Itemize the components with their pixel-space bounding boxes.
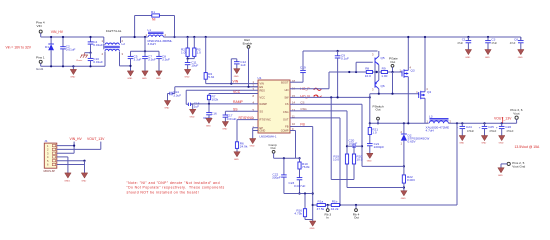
capacitor C14 3.3uF: [164, 87, 181, 110]
wire HO_N SW line: [290, 96, 371, 98]
wire CSG line: [290, 111, 404, 188]
ground GND input: [70, 65, 76, 78]
capacitor C15 1uF: [186, 90, 200, 118]
svg-text:GND: GND: [156, 78, 161, 80]
svg-text:Vout Gnd: Vout Gnd: [512, 165, 525, 169]
resistor R1b 42.2k: [331, 200, 340, 211]
wire FB column: [290, 127, 314, 222]
svg-text:GND: GND: [234, 159, 239, 161]
wire comp bottom: [284, 193, 313, 195]
svg-text:RAMP: RAMP: [233, 100, 244, 104]
svg-text:C25: C25: [488, 125, 494, 129]
wire EN/C14 line: [175, 86, 258, 88]
svg-text:FB: FB: [285, 125, 289, 129]
svg-text:"Do Not Populate" respectively: "Do Not Populate" respectively. These co…: [127, 186, 225, 190]
svg-text:0.01uF: 0.01uF: [93, 43, 103, 47]
svg-text:Gnd1: Gnd1: [36, 67, 44, 71]
svg-text:RT/SYNC: RT/SYNC: [260, 118, 271, 122]
terminal Pins 4 VIN: [36, 21, 45, 37]
wire boot rail top: [303, 50, 378, 52]
svg-text:GND: GND: [367, 161, 372, 163]
IC pin numbers: [253, 79, 296, 131]
svg-text:GND: GND: [70, 77, 75, 79]
svg-text:R9: R9: [382, 67, 386, 71]
test point Comp Out: [269, 143, 278, 158]
pin numbers Q3 Q4: [400, 66, 429, 95]
svg-text:0.01uF: 0.01uF: [66, 48, 76, 52]
svg-text:47uF: 47uF: [491, 42, 497, 45]
capacitor C21 2200pF snubber: [367, 142, 385, 163]
svg-text:SS: SS: [233, 108, 238, 112]
wire RT/SYNC line: [237, 119, 258, 121]
svg-text:13.5Vout @ 15A: 13.5Vout @ 15A: [515, 145, 540, 149]
test point PSwitch Out: [373, 104, 384, 124]
svg-text:470uF: 470uF: [467, 130, 475, 133]
svg-text:GND: GND: [222, 129, 227, 131]
resistor R19 10.0: [333, 154, 349, 164]
transistor Q6 PNP: [375, 72, 385, 94]
net label VOUT_13V: [494, 117, 512, 123]
svg-text:GND: GND: [250, 146, 255, 148]
ground EP GND of IC: [250, 128, 259, 148]
wire J1 pin 5: [57, 160, 86, 162]
wire RES line: [186, 89, 258, 91]
svg-text:VIN_HV: VIN_HV: [70, 137, 83, 141]
svg-text:330pF: 330pF: [272, 176, 281, 180]
svg-text:EN: EN: [260, 85, 264, 89]
capacitor C12 1uF on VIN: [231, 59, 246, 84]
capacitor C1 47uF: [457, 36, 471, 59]
svg-text:0.003: 0.003: [407, 178, 415, 182]
svg-text:1.0: 1.0: [197, 51, 202, 55]
svg-text:VIN: VIN: [37, 24, 42, 28]
svg-text:VOUT_13V: VOUT_13V: [87, 137, 105, 141]
svg-text:OUT: OUT: [283, 118, 289, 122]
svg-text:102k: 102k: [212, 97, 219, 101]
svg-text:0.047uF: 0.047uF: [294, 184, 305, 188]
svg-text:0.1uF: 0.1uF: [341, 57, 349, 61]
svg-text:Vin = 16V to 32V: Vin = 16V to 32V: [6, 46, 32, 50]
svg-text:GND: GND: [234, 76, 239, 78]
ground GND1 J1: [64, 173, 71, 183]
svg-text:NI: NI: [152, 18, 155, 22]
svg-text:Chass: Chass: [76, 60, 83, 62]
ground FB divider: [310, 221, 316, 230]
svg-text:GND: GND: [459, 143, 464, 145]
op-amp U1 controller: [258, 76, 291, 139]
resistor R2 1.0: [181, 36, 189, 59]
capacitor C19 boot: [290, 51, 306, 82]
svg-text:R8: R8: [365, 67, 369, 71]
svg-text:SW: SW: [284, 95, 289, 99]
svg-text:GND: GND: [142, 78, 147, 80]
svg-text:Q4: Q4: [427, 90, 431, 94]
transistor Q5 NPN: [375, 51, 385, 72]
svg-text:Out: Out: [376, 108, 381, 112]
resistor R1 NI bridge: [134, 10, 176, 38]
resistor R6 24.9k: [234, 120, 248, 161]
capacitor C9 0.1uF: [335, 50, 349, 98]
svg-text:C16: C16: [211, 112, 217, 116]
resistor R10 76.8k: [296, 157, 311, 178]
common-mode choke L2 FA2774-AL: [104, 29, 131, 67]
wire top input rail: [41, 36, 104, 38]
capacitor C25 470uF: [479, 123, 497, 144]
svg-text:GND: GND: [518, 57, 523, 59]
svg-text:1uF: 1uF: [194, 105, 199, 109]
svg-text:D1: D1: [45, 45, 49, 49]
svg-text:"Note: "NI" and "DNP" denote ": "Note: "NI" and "DNP" denote "Not Instal…: [127, 181, 220, 185]
diode D1 TVS: [45, 36, 54, 68]
svg-text:5.32: 5.32: [208, 75, 214, 79]
svg-text:VCC: VCC: [233, 90, 241, 94]
svg-text:L3: L3: [429, 115, 433, 119]
pin numbers D2: [401, 130, 403, 146]
test point Rb 4 Out: [353, 205, 360, 219]
wire switch node: [369, 122, 429, 124]
resistor R21 1.0 snubber: [368, 123, 378, 143]
capacitor C23 0.047uF: [289, 178, 306, 195]
svg-text:R1b: R1b: [332, 200, 338, 204]
svg-text:0.65V: 0.65V: [408, 140, 417, 144]
wire Q4 gate line: [370, 72, 419, 123]
wire driver base bus: [375, 64, 378, 82]
svg-text:2200pF: 2200pF: [374, 145, 385, 149]
capacitor C10 0.01uF lower Y-cap: [88, 53, 103, 68]
pin numbers J1: [47, 144, 49, 167]
pin numbers L3: [427, 120, 452, 124]
net label HO_N with DNP mark: [300, 94, 321, 98]
wire top rail choke to L1: [121, 36, 148, 38]
svg-text:C24: C24: [466, 125, 472, 129]
svg-text:4.75k: 4.75k: [294, 211, 302, 215]
capacitor C6 47uF: [510, 37, 524, 59]
capacitor C4 0.01uF upper Y-cap: [88, 36, 103, 53]
wire CS line: [290, 104, 404, 166]
svg-text:3.3uF: 3.3uF: [173, 93, 181, 97]
test point Rb 3 In: [325, 205, 332, 219]
wire VIN pin line: [206, 83, 258, 85]
inductor L3 output: [426, 115, 450, 133]
wire aux sense line: [331, 97, 354, 179]
svg-text:1.00: 1.00: [381, 74, 387, 78]
wire OUT sense column: [290, 118, 341, 206]
pin numbers L1: [146, 33, 167, 37]
pin numbers choke: [102, 39, 124, 56]
svg-text:R1a: R1a: [318, 200, 324, 204]
wire J1 pin 3: [57, 152, 74, 154]
wire SS line: [225, 110, 258, 112]
capacitor C20 100pF: [347, 139, 362, 148]
svg-text:76.8k: 76.8k: [302, 165, 310, 169]
wire HO_P line: [290, 88, 329, 90]
svg-text:VIN: VIN: [260, 82, 264, 86]
inductor L1: [148, 28, 173, 46]
svg-text:BOOT: BOOT: [281, 80, 289, 84]
svg-text:47.5k: 47.5k: [317, 207, 325, 211]
svg-text:GND: GND: [81, 180, 86, 182]
svg-text:3.3uF: 3.3uF: [162, 57, 170, 61]
svg-text:CSG: CSG: [283, 110, 289, 114]
svg-text:should NOT be installed on the: should NOT be installed on the board!: [127, 190, 200, 194]
svg-text:L1: L1: [148, 28, 152, 32]
capacitor C11 10uF: [184, 58, 198, 79]
terminal Pins 1 Gnd1: [36, 56, 45, 71]
svg-text:VIN_HV: VIN_HV: [51, 30, 64, 34]
svg-text:GND: GND: [190, 117, 195, 119]
svg-text:MKDS-6P: MKDS-6P: [44, 169, 56, 173]
svg-text:GND: GND: [260, 129, 266, 133]
svg-text:0.01uF: 0.01uF: [93, 60, 103, 64]
capacitor bank bus C4 C7 C8: [131, 36, 160, 53]
wire bottom input rail: [41, 65, 105, 67]
capacitor C24 470uF: [456, 123, 474, 144]
resistor R20 10.0: [352, 146, 362, 179]
terminal Pins 2 5 Vout Gnd: [498, 161, 526, 177]
resistor R16 4.75k: [294, 192, 312, 219]
svg-text:0.01uF: 0.01uF: [227, 117, 237, 121]
svg-text:In: In: [326, 215, 329, 219]
net label HO_P with DNP mark: [300, 87, 321, 91]
svg-text:SS: SS: [260, 110, 264, 114]
capacitor C8 3.3uF: [156, 51, 170, 80]
resistor R8 10.0: [365, 67, 375, 78]
note DNP red text: [127, 181, 225, 194]
svg-text:24.9k: 24.9k: [240, 145, 248, 149]
wire J1 pin 2: [57, 148, 101, 150]
svg-text:RAMP: RAMP: [260, 102, 268, 106]
svg-text:3.8uH: 3.8uH: [148, 42, 156, 46]
svg-text:GND: GND: [185, 77, 190, 79]
wire J1 riser VOUT_13V: [100, 142, 102, 150]
svg-text:R1: R1: [151, 10, 155, 14]
svg-text:10.0: 10.0: [365, 74, 371, 78]
svg-text:RT/SYNC: RT/SYNC: [239, 116, 254, 120]
svg-text:GND: GND: [498, 175, 503, 177]
svg-text:U1: U1: [258, 76, 262, 80]
svg-text:GND: GND: [485, 57, 490, 59]
svg-text:Pins 1: Pins 1: [36, 56, 45, 60]
svg-text:J1: J1: [44, 139, 48, 143]
transistor Q4 NMOS: [419, 36, 432, 123]
svg-text:10.0: 10.0: [333, 158, 339, 162]
wire J1 pin 1: [57, 142, 75, 154]
svg-text:1.0: 1.0: [181, 51, 186, 55]
svg-text:1uF: 1uF: [240, 63, 245, 67]
svg-text:RES: RES: [260, 88, 266, 92]
wire FB divider bottom: [313, 123, 457, 206]
capacitor C2 0.01uF: [60, 36, 75, 68]
svg-text:C1: C1: [462, 37, 466, 41]
connector J1: [44, 139, 57, 173]
resistor R3 1.0: [188, 36, 201, 59]
svg-text:10.0: 10.0: [356, 158, 362, 162]
svg-text:47uF: 47uF: [457, 42, 463, 45]
svg-text:VIN: VIN: [233, 80, 239, 84]
test point Rail Enable: [243, 38, 258, 87]
svg-text:GND: GND: [127, 78, 132, 80]
svg-text:GND: GND: [465, 57, 470, 59]
svg-text:GND1: GND1: [64, 180, 71, 182]
svg-text:+: +: [496, 125, 498, 129]
svg-text:3.3uF: 3.3uF: [134, 57, 142, 61]
svg-text:GND: GND: [499, 143, 504, 145]
svg-text:100pF: 100pF: [349, 141, 358, 145]
svg-text:GND: GND: [164, 108, 169, 110]
svg-text:Enable: Enable: [243, 41, 253, 45]
svg-text:Vout: Vout: [513, 111, 519, 115]
svg-text:GND: GND: [481, 143, 486, 145]
IC right pin labels: [281, 80, 289, 132]
svg-text:4.7uH: 4.7uH: [426, 128, 434, 132]
svg-text:VCC: VCC: [260, 95, 266, 99]
svg-text:Q5: Q5: [381, 56, 385, 60]
svg-text:+: +: [479, 125, 481, 129]
wire top rail L1 to right: [163, 36, 520, 38]
capacitor C16 680pF: [203, 104, 217, 128]
svg-text:HO: HO: [285, 88, 289, 92]
svg-text:42.2k: 42.2k: [331, 207, 339, 211]
svg-text:COMP: COMP: [281, 129, 289, 133]
svg-text:10uF: 10uF: [191, 64, 198, 68]
wire HO_P riser to driver: [329, 62, 373, 88]
resistor R22 0.003 sense: [401, 166, 415, 200]
capacitor C17 0.01uF: [222, 111, 236, 130]
pin numbers Q5 Q6: [372, 53, 374, 92]
chassis ground Chass: [76, 52, 92, 62]
svg-text:LM5045MH-1: LM5045MH-1: [260, 135, 277, 139]
resistor R9 1.00: [379, 67, 402, 78]
svg-text:C26: C26: [505, 125, 511, 129]
transistor Q3 NMOS: [402, 36, 415, 123]
svg-text:FA2774-AL: FA2774-AL: [106, 29, 122, 33]
svg-text:Out: Out: [354, 215, 359, 219]
resistor R7 102k: [207, 94, 218, 104]
svg-text:47uF: 47uF: [510, 42, 516, 45]
IC left pin labels: [260, 82, 271, 133]
resistor R1a 47.5k: [317, 200, 326, 211]
svg-text:C3: C3: [491, 37, 495, 41]
svg-text:Q6: Q6: [381, 84, 385, 88]
capacitor C2b 47uF: [485, 36, 498, 59]
svg-text:C19: C19: [300, 66, 306, 70]
svg-text:1.0: 1.0: [372, 130, 377, 134]
svg-text:GND: GND: [401, 198, 406, 200]
resistor R4 5.32 VIN feed: [204, 36, 214, 84]
capacitor C7 3.3uF: [142, 51, 156, 80]
capacitor C26 470uF: [496, 123, 514, 144]
svg-text:GND: GND: [310, 228, 315, 229]
svg-text:470uF: 470uF: [489, 130, 497, 133]
test point PGate Out: [389, 57, 398, 74]
terminal Pins 3 6 Vout: [510, 108, 522, 123]
svg-text:3.3uF: 3.3uF: [148, 57, 156, 61]
svg-text:GND: GND: [206, 126, 211, 128]
wire J1 pin 4: [57, 157, 68, 173]
wire output rail: [448, 122, 516, 124]
ground GND J1: [81, 173, 87, 183]
wire VCC line: [209, 93, 258, 95]
wire RAMP line: [191, 103, 258, 105]
capacitor C5 3.3uF: [127, 51, 141, 80]
svg-text:470uF: 470uF: [506, 130, 514, 133]
svg-text:C6: C6: [514, 37, 518, 41]
wire COMP column: [274, 131, 296, 160]
diode D2 STPS30045: [401, 123, 430, 167]
wire J1 pin 6: [57, 161, 85, 173]
svg-text:Out: Out: [271, 146, 276, 150]
svg-text:CS: CS: [285, 102, 289, 106]
svg-text:Out: Out: [390, 60, 395, 64]
capacitor C22 330pF: [272, 158, 287, 193]
svg-text:Q3: Q3: [411, 69, 415, 73]
